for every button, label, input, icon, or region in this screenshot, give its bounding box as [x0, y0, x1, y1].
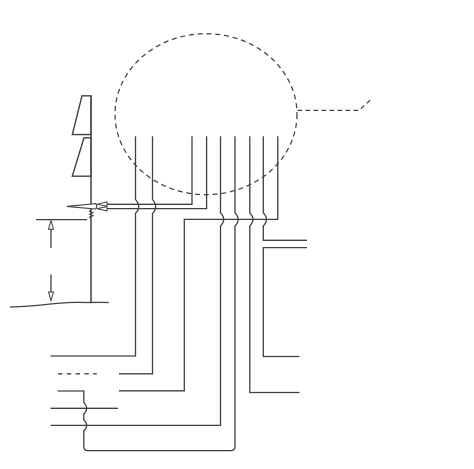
wire W: thermostat/furnace W row to ADHC terminal W (hop over Gf run) — [51, 136, 224, 425]
dimension arrow shaft lower — [50, 275, 52, 293]
dimension arrow down arrowhead — [49, 292, 54, 301]
wire ODT1: outdoor sensor upper lead to ADHC ODT terminal — [98, 136, 193, 204]
arrowhead on ODT2 wire at wall — [97, 207, 107, 211]
dimension arrow above snow line: up arrowhead — [49, 221, 54, 230]
wire H1: ADHC terminal H down to transformer secondary bottom (hop over Gf run) — [250, 136, 300, 392]
dashed leader line from blow-up circle to control panel detail circle — [298, 98, 373, 110]
detail blow-up dashed circle around ADHC terminal strip — [115, 34, 297, 195]
wire H2: ADHC terminal H down to water solenoid valve (hop over Gf run) — [263, 136, 307, 240]
wire valve return: solenoid valve to transformer secondary top — [263, 248, 307, 357]
wire C: furnace C row to ADHC terminal C (hop over ODT wires) — [119, 136, 156, 373]
wire C: dashed thermostat C to furnace C — [58, 373, 97, 375]
wire G: thermostat G down, under furnace, up to ADHC terminal G (hops) — [58, 136, 239, 450]
outdoor temperature sensor probe through wall — [67, 204, 97, 210]
sensor coil squiggle below probe — [90, 210, 94, 219]
dimension arrow shaft upper — [50, 229, 52, 248]
wire R: furnace R row to ADHC terminal R (hop over ODT wires) — [51, 136, 139, 356]
arrowhead on ODT1 wire at wall — [97, 202, 107, 206]
wall siding break upper trapezoid — [72, 96, 91, 135]
wall siding break lower trapezoid — [72, 138, 91, 176]
wire Gf: furnace G row up at x184 across to ADHC terminal Gf — [119, 136, 278, 390]
wire Y: thermostat Y row to furnace Y — [51, 407, 119, 409]
snow line ground curve — [10, 302, 109, 307]
wire ODT2: outdoor sensor lower lead to ADHC ODT terminal — [98, 136, 207, 208]
wall of house (vertical line) — [90, 96, 92, 304]
snow line reference tick — [36, 219, 87, 221]
